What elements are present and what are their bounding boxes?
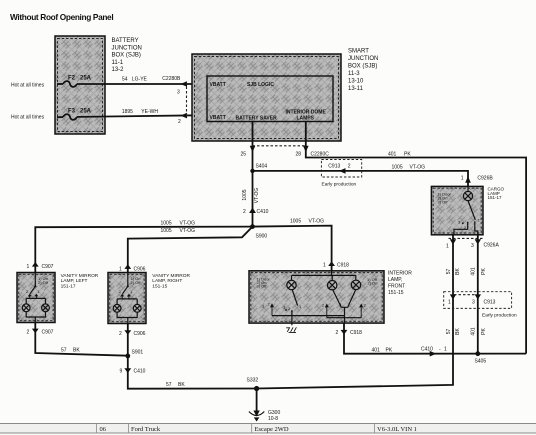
svg-text:VANITY MIRROR: VANITY MIRROR (61, 273, 99, 279)
svg-text:VT-OG: VT-OG (309, 219, 325, 225)
svg-text:BATTERY SAVER: BATTERY SAVER (236, 116, 278, 122)
svg-text:C906: C906 (134, 266, 146, 272)
svg-text:PK: PK (404, 152, 411, 158)
svg-text:2: 2 (243, 209, 246, 215)
svg-text:2) Off: 2) Off (38, 280, 49, 285)
svg-text:C907: C907 (42, 264, 54, 270)
svg-text:PK: PK (386, 348, 393, 354)
svg-text:VT-OG: VT-OG (180, 228, 196, 234)
svg-text:VT-OG: VT-OG (410, 165, 426, 171)
svg-text:10-8: 10-8 (268, 416, 278, 422)
svg-text:3: 3 (177, 90, 180, 96)
svg-text:54: 54 (122, 77, 128, 83)
svg-text:INTERIOR: INTERIOR (388, 271, 412, 277)
svg-text:9: 9 (120, 369, 123, 375)
svg-text:S404: S404 (256, 164, 268, 170)
svg-text:Early production: Early production (322, 181, 357, 187)
svg-text:2: 2 (27, 330, 30, 336)
svg-text:C410: C410 (421, 347, 433, 353)
svg-text:1: 1 (461, 175, 464, 181)
svg-text:13-11: 13-11 (348, 86, 364, 92)
svg-text:06: 06 (100, 426, 107, 433)
svg-text:LAMP, LEFT: LAMP, LEFT (61, 278, 88, 284)
svg-text:BK: BK (455, 328, 461, 335)
svg-text:2: 2 (348, 163, 351, 169)
svg-text:C926B: C926B (477, 175, 493, 181)
svg-text:401: 401 (372, 348, 381, 354)
svg-text:F2: F2 (68, 76, 76, 82)
svg-text:3: 3 (472, 300, 475, 306)
svg-text:151-17: 151-17 (61, 283, 76, 289)
svg-text:1005: 1005 (290, 219, 301, 225)
svg-text:S405: S405 (475, 359, 487, 365)
svg-text:C410: C410 (257, 209, 269, 215)
svg-text:C410: C410 (134, 369, 146, 375)
svg-text:C926A: C926A (484, 243, 500, 249)
svg-text:BK: BK (73, 348, 80, 354)
svg-text:C918: C918 (337, 263, 349, 269)
svg-text:11-3: 11-3 (348, 71, 360, 77)
svg-text:VBATT: VBATT (210, 82, 226, 88)
svg-text:13-10: 13-10 (348, 79, 364, 85)
svg-text:1005: 1005 (392, 165, 403, 171)
svg-text:1: 1 (446, 244, 449, 250)
svg-text:151-17: 151-17 (488, 195, 503, 200)
svg-text:1895: 1895 (122, 109, 133, 115)
svg-text:401: 401 (471, 267, 477, 276)
svg-text:F3: F3 (68, 109, 76, 115)
svg-text:25: 25 (241, 152, 247, 158)
svg-text:Hot at all times: Hot at all times (11, 115, 45, 121)
svg-text:C913: C913 (328, 163, 340, 169)
svg-text:LAMPS: LAMPS (297, 116, 315, 122)
svg-text:2: 2 (119, 331, 122, 337)
svg-text:151-15: 151-15 (152, 283, 167, 289)
svg-text:Hot at all times: Hot at all times (11, 83, 45, 89)
svg-text:C918: C918 (350, 330, 362, 336)
svg-text:FRONT: FRONT (388, 284, 405, 290)
svg-text:1: 1 (27, 264, 30, 270)
svg-text:JUNCTION: JUNCTION (348, 56, 378, 62)
svg-text:2: 2 (336, 330, 339, 336)
svg-text:151-15: 151-15 (388, 290, 404, 296)
svg-text:3) Off: 3) Off (438, 200, 449, 205)
svg-text:C913: C913 (484, 300, 496, 306)
svg-text:C906: C906 (134, 331, 146, 337)
svg-text:S901: S901 (132, 350, 144, 356)
svg-text:BOX (SJB): BOX (SJB) (348, 64, 377, 70)
svg-text:C2280B: C2280B (162, 76, 181, 82)
svg-text:28: 28 (296, 152, 302, 158)
svg-text:V6-3.0L VIN 1: V6-3.0L VIN 1 (377, 426, 417, 433)
svg-text:YE-WH: YE-WH (141, 109, 158, 115)
svg-text:LG-YE: LG-YE (132, 77, 148, 83)
svg-text:Early production: Early production (482, 312, 517, 318)
svg-text:C2280C: C2280C (311, 152, 330, 158)
svg-text:LAMP, RIGHT: LAMP, RIGHT (152, 278, 182, 284)
svg-text:1: 1 (444, 347, 447, 353)
svg-text:VT-OG: VT-OG (180, 221, 196, 227)
svg-text:LAMP,: LAMP, (388, 277, 402, 283)
svg-text:401: 401 (388, 152, 397, 158)
svg-text:VANITY MIRROR: VANITY MIRROR (152, 273, 190, 279)
svg-text:C907: C907 (42, 330, 54, 336)
svg-text:1005: 1005 (161, 221, 172, 227)
svg-text:PK: PK (481, 268, 487, 275)
svg-text:3: 3 (471, 243, 474, 249)
svg-text:JUNCTION: JUNCTION (112, 45, 142, 51)
svg-text:2) Off: 2) Off (131, 280, 142, 285)
svg-text:SJB LOGIC: SJB LOGIC (247, 82, 274, 88)
svg-text:INTERIOR DOME: INTERIOR DOME (286, 110, 327, 116)
svg-text:1: 1 (119, 266, 122, 272)
svg-text:11-1: 11-1 (112, 60, 124, 66)
svg-text:BATTERY: BATTERY (112, 38, 139, 44)
svg-text:2: 2 (178, 119, 181, 125)
svg-text:2) On: 2) On (368, 281, 378, 286)
svg-text:VT-OG: VT-OG (254, 188, 260, 204)
svg-text:1: 1 (448, 300, 451, 306)
svg-text:25A: 25A (80, 76, 92, 82)
svg-text:VBATT: VBATT (210, 115, 226, 121)
svg-text:13-2: 13-2 (112, 67, 125, 73)
svg-text:Escape 2WD: Escape 2WD (255, 426, 289, 433)
svg-text:25A: 25A (80, 109, 92, 115)
svg-text:Without Roof Opening Panel: Without Roof Opening Panel (10, 12, 113, 22)
svg-text:3) Off: 3) Off (257, 284, 268, 289)
svg-text:57: 57 (61, 348, 67, 354)
svg-text:Ford Truck: Ford Truck (131, 426, 161, 433)
svg-text:57: 57 (446, 269, 452, 275)
svg-text:BOX (SJB): BOX (SJB) (112, 53, 141, 59)
svg-text:1: 1 (323, 263, 326, 269)
svg-text:BK: BK (178, 382, 185, 388)
svg-text:PK: PK (481, 328, 487, 335)
svg-text:57: 57 (446, 329, 452, 335)
svg-text:1005: 1005 (242, 189, 248, 200)
svg-text:57: 57 (166, 382, 172, 388)
svg-text:1005: 1005 (161, 228, 172, 234)
svg-text:SMART: SMART (348, 49, 369, 55)
svg-text:BK: BK (455, 268, 461, 275)
svg-text:401: 401 (471, 327, 477, 336)
svg-text:S332: S332 (247, 378, 259, 384)
svg-text:S900: S900 (256, 234, 268, 240)
